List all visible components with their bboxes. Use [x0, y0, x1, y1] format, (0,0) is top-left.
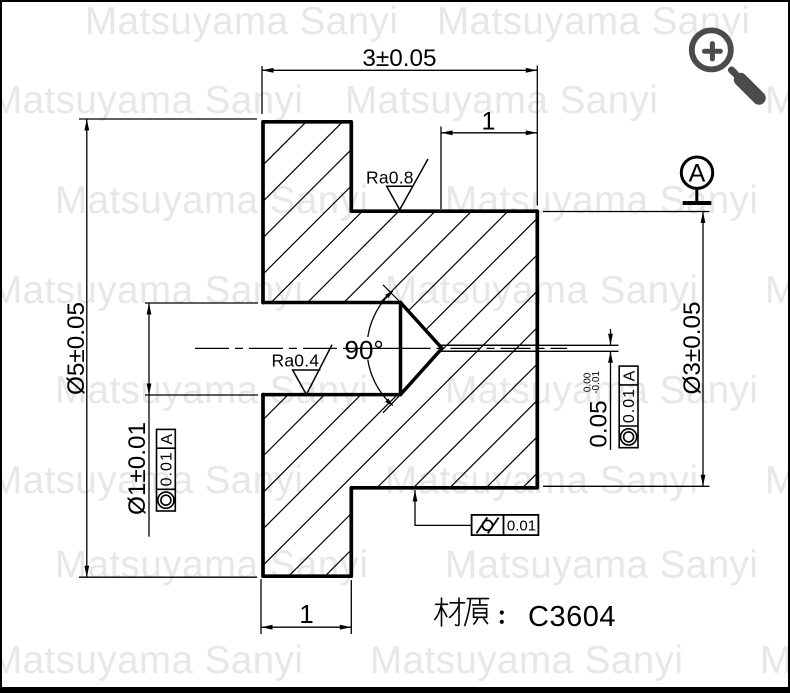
- svg-text:Ø5±0.05: Ø5±0.05: [63, 302, 90, 395]
- dimension Ø1±0.01 (left): [145, 303, 258, 537]
- svg-text:0.01: 0.01: [621, 388, 638, 423]
- svg-text:Ø3±0.05: Ø3±0.05: [679, 301, 706, 394]
- svg-text:C3604: C3604: [528, 601, 616, 633]
- material note 材质：C3604: [435, 598, 465, 626]
- svg-text:1: 1: [299, 599, 314, 629]
- svg-text:Matsuyama Sanyi: Matsuyama Sanyi: [55, 369, 369, 412]
- centerline: [195, 347, 567, 349]
- svg-text:Matsuyama Sanyi: Matsuyama Sanyi: [85, 0, 399, 43]
- svg-text:A: A: [689, 160, 706, 188]
- svg-text:-0.01: -0.01: [591, 371, 602, 394]
- dimension Ø3±0.05 (right): [543, 212, 710, 487]
- svg-text:Matsuyama Sanyi: Matsuyama Sanyi: [765, 269, 790, 312]
- part outline: [263, 122, 537, 576]
- magnifier icon: [692, 30, 759, 98]
- svg-text:Matsuyama Sanyi: Matsuyama Sanyi: [55, 544, 369, 587]
- bore outline: [263, 303, 442, 395]
- dimension 1 (bottom): [261, 579, 351, 634]
- svg-text:Matsuyama Sanyi: Matsuyama Sanyi: [445, 544, 759, 587]
- svg-text:Ra0.4: Ra0.4: [272, 351, 320, 371]
- concentricity frame for Ø1: [157, 429, 176, 511]
- svg-text:Matsuyama Sanyi: Matsuyama Sanyi: [0, 79, 304, 122]
- svg-text:Matsuyama Sanyi: Matsuyama Sanyi: [765, 79, 790, 122]
- svg-text:90°: 90°: [345, 335, 384, 365]
- dimension 3±0.05 (top): [262, 66, 537, 206]
- dimension Ø5±0.05 (left): [79, 119, 257, 577]
- svg-text:Matsuyama Sanyi: Matsuyama Sanyi: [0, 639, 304, 682]
- surface finish Ra0.4: [272, 345, 333, 395]
- angle 90° dimension: [345, 285, 401, 413]
- center drill cone: [401, 303, 443, 395]
- svg-text:A: A: [622, 370, 639, 382]
- svg-text:Matsuyama Sanyi: Matsuyama Sanyi: [760, 639, 790, 682]
- datum A symbol: [681, 157, 712, 203]
- svg-text:Matsuyama Sanyi: Matsuyama Sanyi: [370, 639, 684, 682]
- orifice hole: [440, 345, 538, 351]
- svg-text:1: 1: [482, 107, 497, 135]
- cylindricity frame with leader: [413, 490, 539, 535]
- svg-text:0.01: 0.01: [507, 518, 536, 535]
- svg-text:0.05: 0.05: [586, 400, 613, 447]
- svg-text:Matsuyama Sanyi: Matsuyama Sanyi: [445, 179, 759, 222]
- svg-text:Matsuyama Sanyi: Matsuyama Sanyi: [0, 459, 304, 502]
- svg-text:A: A: [159, 433, 176, 445]
- concentricity frame for 0.05: [619, 366, 638, 448]
- svg-text:Ø1±0.01: Ø1±0.01: [124, 422, 151, 515]
- surface finish Ra0.8: [366, 159, 428, 210]
- svg-text:Matsuyama Sanyi: Matsuyama Sanyi: [765, 459, 790, 502]
- dimension 1 (top): [441, 127, 537, 210]
- svg-text:Ra0.8: Ra0.8: [366, 168, 414, 188]
- svg-text:Matsuyama Sanyi: Matsuyama Sanyi: [437, 0, 751, 43]
- svg-text:0.01: 0.01: [159, 451, 176, 486]
- svg-text:Matsuyama Sanyi: Matsuyama Sanyi: [0, 269, 304, 312]
- svg-text:Matsuyama Sanyi: Matsuyama Sanyi: [385, 269, 699, 312]
- svg-text:Matsuyama Sanyi: Matsuyama Sanyi: [345, 79, 659, 122]
- svg-text:3±0.05: 3±0.05: [362, 45, 436, 72]
- dimension 0.05 tolerance (right): [538, 329, 619, 450]
- svg-text:Matsuyama Sanyi: Matsuyama Sanyi: [385, 459, 699, 502]
